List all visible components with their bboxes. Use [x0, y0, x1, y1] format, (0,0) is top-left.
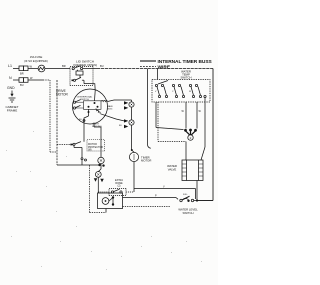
wire lid switch into motor [94, 91, 97, 101]
wire timer to solenoid 2, label W [196, 102, 198, 129]
wire timer right down [204, 102, 206, 147]
wire motor to connector column [93, 123, 95, 128]
svg-text:SWITCH: SWITCH [182, 211, 193, 215]
wire v run [134, 188, 196, 190]
wire L1 lead [13, 68, 19, 70]
junction dots inside motor [94, 102, 96, 104]
timer switch box [152, 80, 210, 103]
wire timer to valve cluster left [155, 102, 157, 128]
svg-text:INTERNAL TIMER BUSS: INTERNAL TIMER BUSS [158, 59, 213, 65]
wire dashed timer to valve box [157, 102, 159, 142]
legend internal timer buss line [140, 60, 156, 62]
connector plug P1 [19, 66, 24, 71]
wire T2 down to timer motor [131, 125, 133, 150]
legend wire dashed line [140, 66, 156, 68]
centrifugal switch contacts [73, 101, 75, 103]
svg-text:(IF SO EQUIPPED): (IF SO EQUIPPED) [24, 59, 48, 63]
wire buss drop to timer box [157, 69, 159, 80]
timer contact group 2 [172, 84, 174, 86]
connector arrows [94, 178, 98, 182]
svg-text:FRAME: FRAME [7, 109, 18, 113]
svg-text:N: N [9, 76, 12, 80]
wire right rail [212, 69, 214, 201]
main winding [101, 100, 108, 101]
wire pump to water level switch [123, 197, 177, 199]
svg-text:SWITCH: SWITCH [80, 99, 89, 101]
node 2 circle [188, 135, 193, 140]
svg-text:MOTOR: MOTOR [141, 159, 151, 163]
wire left rail [56, 80, 58, 165]
wire T1 to T2 [131, 107, 133, 120]
terminal T1 [124, 101, 128, 104]
terminal T2 [124, 119, 128, 122]
motor protector branch [83, 123, 85, 142]
svg-text:(2): (2) [118, 185, 121, 188]
wire timer motor down [133, 162, 135, 189]
wire lid switch to motor [94, 84, 95, 91]
wire N lead [13, 79, 19, 81]
wire main winding to T1 [108, 100, 114, 102]
lid switch inner jog [76, 71, 83, 75]
svg-text:BU: BU [100, 64, 104, 68]
svg-text:L1: L1 [8, 64, 12, 68]
wire valve to water level switch [196, 181, 198, 201]
start winding [88, 109, 90, 116]
junction dots on bottom rail [98, 164, 100, 166]
timer motor TM [129, 152, 138, 161]
svg-text:W: W [189, 91, 191, 93]
svg-text:BU: BU [20, 83, 24, 87]
timer contact group 1 [155, 84, 157, 86]
lid switch contact S1b [73, 79, 75, 81]
motor protector enclosure [87, 140, 105, 152]
water pump box [98, 193, 123, 209]
svg-text:2: 2 [190, 136, 192, 140]
svg-text:WDG: WDG [107, 109, 113, 111]
wire N run [28, 79, 43, 81]
water valve solenoid junctions [184, 129, 187, 132]
wire N vertical dashed [49, 80, 51, 152]
svg-text:15A FUSE: 15A FUSE [30, 55, 43, 59]
wire N return dashed [89, 165, 91, 212]
connector C1 [98, 157, 104, 163]
wire start winding to T2 [101, 114, 117, 119]
centrifugal switch body [84, 101, 102, 110]
svg-text:FULL: FULL [183, 194, 188, 196]
lid switch contact S1a [72, 68, 74, 70]
water level switch [180, 199, 182, 201]
svg-text:SWITCH: SWITCH [180, 76, 191, 80]
wire buss drop left of timer box [147, 69, 149, 146]
wire fuse to lid switch, label BR [45, 68, 70, 70]
wire lower dashed run [123, 206, 171, 208]
fuse F1 [38, 65, 45, 72]
timer terminal right [204, 95, 206, 97]
timer extra contacts [165, 95, 167, 97]
svg-text:VALVE: VALVE [168, 167, 177, 171]
svg-text:WIRE: WIRE [158, 65, 171, 71]
connector C2 [95, 172, 101, 178]
timer contact group 3 [189, 84, 191, 86]
svg-text:BR: BR [62, 64, 66, 68]
connector plug P2 [19, 78, 24, 83]
wire timer to solenoid 1, label W [185, 102, 187, 129]
svg-text:(M): (M) [88, 149, 92, 152]
svg-text:MOTOR: MOTOR [56, 93, 69, 97]
motor internal lower branch [84, 116, 89, 123]
svg-text:BR: BR [20, 72, 24, 76]
wire to fuse [28, 68, 38, 70]
scan noise speckles [6, 131, 202, 270]
svg-text:GND: GND [7, 86, 15, 90]
